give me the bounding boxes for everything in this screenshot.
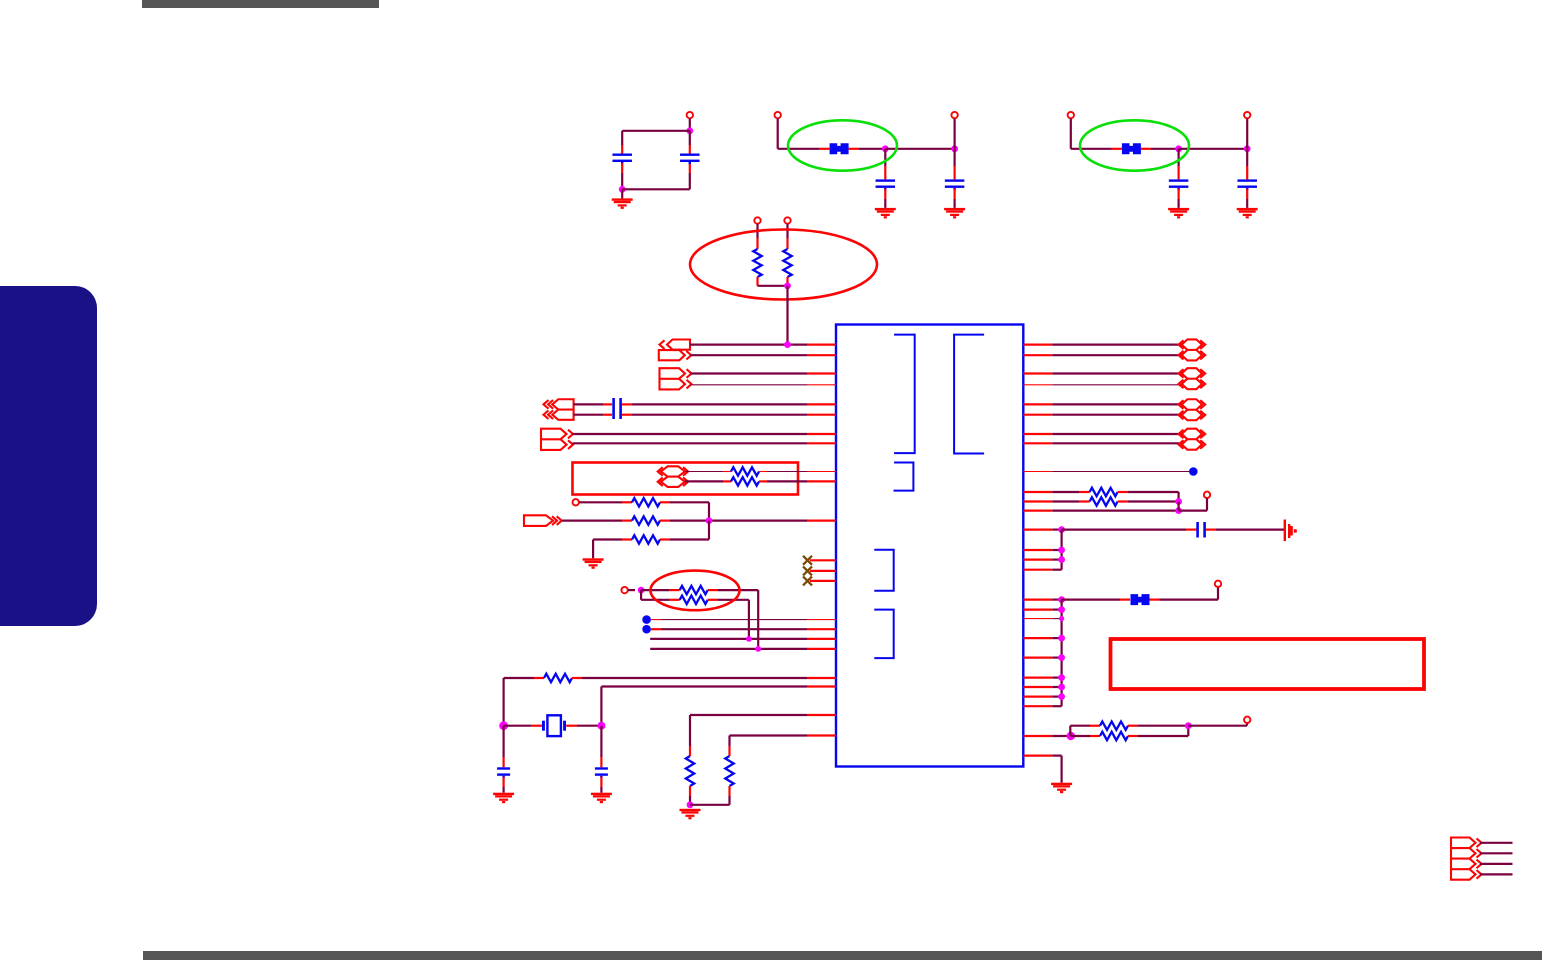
wire cap FB2A top lead xyxy=(1177,149,1179,180)
wire row9b thin xyxy=(759,471,836,473)
resistor R12 xyxy=(725,756,733,786)
wire r-row27 to gnd xyxy=(1023,756,1061,783)
junction C2 top xyxy=(686,127,693,134)
resistor R8 xyxy=(680,586,708,594)
no-connect X row14 xyxy=(803,556,836,565)
wire row5 to C3 xyxy=(574,403,612,405)
wire FB1 to node B xyxy=(885,148,954,150)
wire row1 xyxy=(690,344,836,346)
pin R1 top xyxy=(754,217,760,223)
wire r-row12 xyxy=(1023,510,1178,512)
wire row19b xyxy=(708,600,749,639)
wire FB1 input drop xyxy=(778,118,830,148)
wire quad2 xyxy=(1480,852,1513,854)
IC U1 body xyxy=(836,325,1023,767)
wire r-row26 up xyxy=(1070,726,1100,736)
wire r-row11b xyxy=(1118,500,1179,502)
resistor R14 xyxy=(1090,497,1118,505)
wire loop bottom xyxy=(622,188,690,190)
wire R16 out xyxy=(1128,726,1188,736)
pin circle FB3 xyxy=(1215,581,1221,587)
capacitor C4 xyxy=(497,767,510,778)
wire C2 top xyxy=(689,118,691,131)
wire C6 to shield xyxy=(1206,528,1284,530)
off-page connector left row1 xyxy=(660,340,691,350)
ground under FB1A xyxy=(875,208,896,219)
wire r-row23 xyxy=(1023,684,1065,691)
wire cap FB2B top lead xyxy=(1246,149,1248,180)
wire FB1 bead out xyxy=(849,148,886,150)
U1 bracket C xyxy=(894,463,914,491)
wire r-row15 xyxy=(1023,556,1065,563)
junction r-row17 xyxy=(1058,596,1065,603)
wire r-row17 xyxy=(1023,598,1061,600)
wire r-vert B xyxy=(1060,530,1062,570)
wire cap FB1A top lead xyxy=(884,149,886,180)
wire row19 from junction xyxy=(641,590,680,600)
ferrite bead FB2 xyxy=(1122,143,1141,154)
junction C1 bottom xyxy=(619,186,626,193)
resistor R15 xyxy=(1100,722,1128,730)
highlight box rows9-10 xyxy=(573,463,799,495)
blue dot row20 xyxy=(642,615,651,624)
wire r-row7 xyxy=(1023,433,1181,435)
wire row10b xyxy=(759,480,836,482)
wire r-row13 xyxy=(1023,528,1061,530)
off-page connector left rows5-6 xyxy=(544,399,574,420)
wire r-row3 xyxy=(1023,372,1181,374)
ground under C4 xyxy=(493,793,514,804)
capacitor C1 xyxy=(612,154,632,165)
resistor R7 xyxy=(632,535,660,543)
wire row3 xyxy=(691,372,837,374)
resistor R4 xyxy=(731,477,759,485)
capacitor FB2A xyxy=(1169,179,1189,190)
wire r-row17b xyxy=(1062,598,1130,600)
ground under FB1B xyxy=(944,208,965,219)
pin FB2 output xyxy=(1244,112,1250,118)
wire row10 xyxy=(685,480,731,482)
ground under FB2A xyxy=(1168,208,1189,219)
wire cap FB2A bottom lead xyxy=(1177,189,1179,208)
junction FB2 B xyxy=(1244,145,1251,152)
junction R15/R16 xyxy=(1185,722,1192,729)
wire r-row16 elbow xyxy=(1023,569,1061,571)
junction row22 xyxy=(746,636,752,642)
wire FB1 output drop xyxy=(953,118,955,148)
wire C4 gnd lead xyxy=(503,777,505,793)
off-page connector right rows1-2 xyxy=(1179,339,1206,360)
junction R1/R2 xyxy=(784,282,791,289)
off-page connector quad xyxy=(1451,838,1482,880)
junction FB1 A xyxy=(882,145,889,152)
junction r-row12 xyxy=(1175,507,1182,514)
wire r-vert C xyxy=(1060,600,1062,707)
wire row6 xyxy=(574,414,836,416)
wire R11 bottom xyxy=(689,786,691,805)
wire C1 top lead xyxy=(621,131,623,154)
highlight ellipse R1/R2 xyxy=(690,230,877,300)
no-connect X row16 xyxy=(803,576,836,585)
ground under C1 xyxy=(612,198,633,209)
wire row25 elbow xyxy=(601,687,836,726)
wire r-row25 elbow xyxy=(1023,705,1061,707)
wire r-row8 xyxy=(1023,442,1181,444)
port tag row12 xyxy=(524,515,562,526)
pin FB2 input xyxy=(1068,112,1074,118)
U1 bracket B xyxy=(954,335,984,454)
off-page connector rows9-10 xyxy=(658,466,688,487)
wire R1 bottom lead xyxy=(758,277,788,286)
wire r-vert A xyxy=(1177,502,1179,511)
off-page connector right rows5-6 xyxy=(1179,399,1206,420)
off-page connector right rows7-8 xyxy=(1179,429,1206,450)
wire r-row20 xyxy=(1023,635,1065,642)
wire R2 bottom lead xyxy=(786,277,788,286)
wire cap FB1A bottom lead xyxy=(884,189,886,208)
pin row18 circle xyxy=(621,587,627,593)
ground right xyxy=(1051,783,1072,794)
wire cap FB1B bottom lead xyxy=(953,189,955,208)
wire row8 xyxy=(573,442,837,444)
wire FB2 output drop xyxy=(1246,118,1248,148)
wire r-row21 xyxy=(1023,654,1065,661)
resistor R9 xyxy=(680,596,708,604)
wire r-row22 xyxy=(1023,674,1065,681)
wire r-row26b xyxy=(1070,735,1100,737)
wire quad4 xyxy=(1480,873,1513,875)
wire row20 thin xyxy=(651,619,836,621)
wire row12 xyxy=(562,519,632,521)
blue dot row21 xyxy=(642,625,651,634)
wire r-row14 xyxy=(1023,547,1065,554)
junction r-row26 xyxy=(1067,732,1075,740)
ferrite bead FB3 xyxy=(1131,594,1150,605)
blue dot r-row9 xyxy=(1189,467,1198,476)
wire to pin circle xyxy=(1188,723,1247,726)
wire C1 to ground xyxy=(621,189,623,198)
junction row18 xyxy=(638,587,645,594)
wire row18 xyxy=(628,589,635,591)
ground under R11 xyxy=(680,809,701,820)
pin row11 circle xyxy=(573,499,579,505)
resistor R3 thin xyxy=(731,467,759,475)
wire row18c xyxy=(708,590,759,649)
wire r-row1 xyxy=(1023,344,1181,346)
wire r-row5 xyxy=(1023,403,1181,405)
junction crystal right xyxy=(597,722,605,730)
wire FB2 bead out xyxy=(1141,148,1179,150)
off-page connector left rows3-4 xyxy=(660,368,692,389)
resistor R16 xyxy=(1100,732,1128,740)
wire row22 xyxy=(650,638,836,640)
wire r-row9 thin xyxy=(1023,471,1189,473)
wire r-row4 thin xyxy=(1023,384,1181,386)
junction crystal left xyxy=(499,721,508,730)
resistor R11 xyxy=(686,756,694,786)
wire C5 lead xyxy=(600,726,602,768)
wire row24b xyxy=(572,677,836,679)
wire row9 thin xyxy=(685,471,731,473)
wire C2 leads xyxy=(689,131,691,190)
wire row13 elbow xyxy=(593,540,632,559)
highlight box right xyxy=(1111,639,1425,689)
wire cap FB2B bottom lead xyxy=(1246,189,1248,208)
ground row13 xyxy=(583,558,604,569)
wire r-row18 xyxy=(1023,606,1065,613)
crystal Y1 xyxy=(542,715,566,736)
header bar xyxy=(142,0,379,8)
wire FB2 input drop xyxy=(1071,118,1122,148)
wire C1 bottom lead xyxy=(621,163,623,189)
wire R junction down to row1 xyxy=(786,286,788,345)
wire FB3 out xyxy=(1150,587,1219,600)
wire r-row10 xyxy=(1023,491,1089,493)
wire crystal right lead xyxy=(566,725,601,727)
wire r-row10b xyxy=(1118,492,1179,502)
node top of C1/C2 loop xyxy=(687,112,693,118)
highlight ellipse FB2 xyxy=(1080,120,1189,170)
pin circle r-row11 xyxy=(1204,492,1210,498)
wire r-row24 xyxy=(1023,693,1065,700)
wire R15 out xyxy=(1128,725,1188,727)
resistor R6 xyxy=(632,516,660,524)
wire quad1 xyxy=(1480,842,1513,844)
off-page connector right rows3-4 xyxy=(1179,368,1206,389)
series capacitor C3 xyxy=(612,398,622,419)
wire r-row6 xyxy=(1023,414,1181,416)
junction R11/R12 xyxy=(687,801,694,808)
wire loop top xyxy=(622,130,690,132)
off-page connector left row2 xyxy=(659,350,692,360)
capacitor C5 xyxy=(595,767,608,778)
resistor R13 xyxy=(1090,488,1118,496)
capacitor FB2B xyxy=(1237,179,1257,190)
pin FB1 input xyxy=(775,112,781,118)
wire r-row11 xyxy=(1023,500,1089,502)
wire row27 elbow xyxy=(730,736,837,757)
footer bar xyxy=(143,951,1542,960)
wire row13b xyxy=(660,521,709,540)
wire row4 thin xyxy=(691,384,837,386)
junction row12 xyxy=(706,517,713,524)
wire C5 gnd lead xyxy=(600,777,602,793)
wire r-row26 xyxy=(1023,735,1070,737)
wire row26 elbow xyxy=(690,715,836,756)
wire row18b xyxy=(641,589,680,591)
highlight ellipse FB1 xyxy=(788,120,897,170)
chassis symbol xyxy=(1284,520,1297,542)
ground under FB2B xyxy=(1237,208,1258,219)
left navy tab xyxy=(0,286,97,626)
series capacitor C6 xyxy=(1196,522,1206,538)
U1 bracket A xyxy=(894,335,915,454)
resistor R10 xyxy=(544,674,572,682)
wire quad3 xyxy=(1480,863,1513,865)
wire row21 xyxy=(651,628,836,630)
wire row12b xyxy=(660,519,836,521)
wire row11 xyxy=(579,501,632,503)
wire row11b xyxy=(660,502,709,520)
wire R1 top lead xyxy=(756,224,758,249)
wire r-row2 xyxy=(1023,354,1181,356)
wire row7 xyxy=(573,433,837,435)
no-connect X row15 xyxy=(803,566,836,575)
junction FB1 B xyxy=(951,145,958,152)
capacitor FB1A xyxy=(876,179,896,190)
junction FB2 A xyxy=(1175,145,1182,152)
wire row2 xyxy=(690,354,836,356)
wire FB2 to node B xyxy=(1179,148,1248,150)
resistor R1 xyxy=(753,249,761,277)
ferrite bead FB1 xyxy=(830,143,849,154)
capacitor C2 xyxy=(680,154,700,165)
wire crystal left lead xyxy=(504,725,542,727)
wire C4 lead xyxy=(503,726,505,768)
U1 bracket E xyxy=(874,610,893,659)
highlight ellipse R8/R9 xyxy=(651,571,740,611)
wire row24 elbow xyxy=(504,678,544,726)
wire C3 to U1 row5 xyxy=(622,403,836,405)
wire r-row19 thin xyxy=(1023,616,1064,621)
U1 bracket D xyxy=(874,550,893,591)
resistor R2 xyxy=(783,249,791,277)
junction r-row13 xyxy=(1058,526,1065,533)
wire R2 top lead xyxy=(786,224,788,249)
wire cap FB1B top lead xyxy=(953,149,955,180)
pin circle r-row26 xyxy=(1244,717,1250,723)
wire row23 xyxy=(650,648,836,650)
wire R12 bottom xyxy=(690,786,730,805)
off-page connector left rows7-8 xyxy=(541,429,573,450)
capacitor FB1B xyxy=(945,179,965,190)
junction r-row11 xyxy=(1175,498,1182,505)
pin R2 top xyxy=(784,217,790,223)
resistor R5 xyxy=(632,498,660,506)
junction row23 xyxy=(755,646,761,652)
wire from pin circle xyxy=(1179,498,1207,511)
ground under C5 xyxy=(591,793,612,804)
pin FB1 output xyxy=(951,112,957,118)
wire r-row13b xyxy=(1062,528,1197,530)
junction row1 xyxy=(784,341,791,348)
